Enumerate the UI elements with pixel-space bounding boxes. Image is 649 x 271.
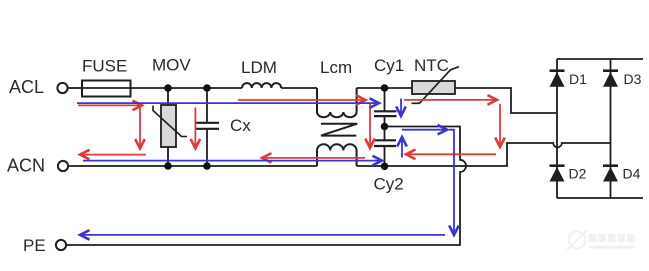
svg-text:Cy2: Cy2 [374,175,404,194]
junction dot Y-cap midpoint [381,123,389,131]
blue common mode arrow down to PE [449,130,454,235]
blue common mode return arrow along PE [80,234,445,236]
capacitor Cy1 bottom lead [384,116,386,126]
svg-text:FUSE: FUSE [82,57,127,76]
blue common mode arrow up through Cy2 [401,137,403,158]
node ACN terminal circle [58,161,68,171]
inductor LDM [242,83,281,88]
wire Y-cap midpoint to earth [66,127,466,246]
core of Lcm choke [321,124,357,136]
wire ACL lead to fuse [68,87,83,89]
junction dot ACN-Cy2 [381,163,389,171]
wire bridge negative rail [557,197,643,199]
junction dot ACL-Cx [203,84,211,92]
wire through fuse [82,87,131,89]
svg-text:D2: D2 [569,166,587,182]
red differential current arrow under NTC [404,99,497,101]
red differential current arrow down before MOV [139,108,141,149]
red differential return arrow from bridge [406,153,496,155]
fuse FUSE [82,81,131,97]
blue common mode arrow along midpoint wire [402,129,447,131]
varistor MOV strike line [153,106,187,137]
capacitor Cy2 plates [374,140,396,146]
svg-text:D1: D1 [569,71,587,87]
svg-text:PE: PE [23,236,46,255]
blue common mode current arrow along ACN [83,160,382,162]
wire ACN rail Lcm to bridge with step [357,143,611,166]
svg-text:ACL: ACL [9,77,44,97]
svg-text:Cx: Cx [230,116,251,135]
wire ACL rail fuse to LDM [131,87,243,89]
diode D4 [603,166,618,182]
wire bridge right branch [610,59,612,198]
inductor Lcm bottom winding [317,144,357,166]
svg-text:D4: D4 [623,166,641,182]
capacitor Cy1 top lead [384,88,386,111]
wire ACL rail Lcm to NTC [357,87,413,89]
svg-text:LDM: LDM [241,58,277,77]
capacitor Cy2 top lead [384,127,386,141]
red differential current arrow down before Cx [194,108,196,149]
thermistor NTC body [412,81,455,94]
junction dot ACN-MOV [164,162,172,170]
watermark [567,230,635,250]
varistor MOV body [161,105,176,147]
wire bridge positive rail [557,58,643,60]
svg-text:D3: D3 [624,71,642,87]
diode D1 [550,71,565,87]
node PE terminal circle [56,240,66,250]
wire ACN under earth wire [454,165,467,167]
svg-text:ACN: ACN [7,156,45,176]
capacitor Cy1 plates [374,111,397,116]
varistor MOV bottom lead [167,147,169,166]
diode D2 [550,166,565,182]
junction dot ACL-MOV [164,84,172,92]
blue common mode arrow turning down into Cy1 [400,99,402,117]
thermistor NTC strike line [412,67,460,104]
junction dot ACL-Cy1 [381,84,389,92]
wire bridge left branch [556,59,558,198]
svg-text:Lcm: Lcm [320,58,352,77]
red differential current arrow down through Y caps [369,104,371,149]
capacitor Cx top lead [206,88,208,123]
capacitor Cx plates [196,123,219,129]
wire ACL rail NTC to bridge [455,88,557,113]
wire ACL rail LDM to Lcm [281,87,317,89]
svg-text:Cy1: Cy1 [374,56,404,75]
capacitor Cx bottom lead [206,129,208,166]
wire ACN rail to Lcm [68,165,317,167]
node ACL terminal circle [57,83,67,93]
varistor MOV branch top lead [167,88,169,105]
svg-text:MOV: MOV [152,56,191,75]
red differential return arrow along ACN mid [262,157,365,159]
inductor Lcm top winding [317,88,357,117]
red differential return arrow to ACN terminal [80,154,146,156]
capacitor Cy2 bottom lead [384,146,386,166]
diode D3 [603,71,618,87]
red differential current arrow down to bridge [499,104,501,147]
blue common mode current arrow along ACL [77,102,379,104]
svg-text:NTC: NTC [414,56,449,75]
junction dot ACN-Cx [203,162,211,170]
red differential current arrow on ACL input [78,104,142,106]
red differential current arrow after LDM [238,99,366,101]
